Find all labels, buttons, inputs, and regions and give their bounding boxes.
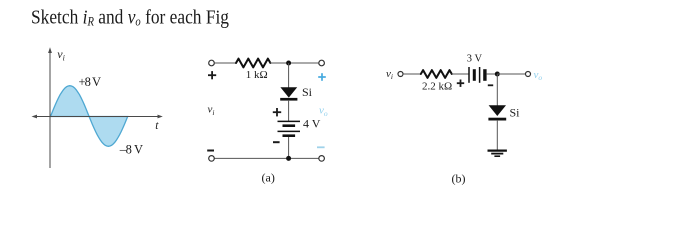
junction node top (a) bbox=[286, 61, 291, 66]
wire resistor to battery (b) bbox=[452, 73, 469, 75]
wire diode to battery (a) bbox=[288, 100, 290, 121]
minus sign bottom-right blue (a) bbox=[317, 146, 325, 148]
battery 4V (a) bbox=[278, 121, 301, 137]
wire battery to junction (b) bbox=[487, 73, 498, 75]
diode D Si (b) bbox=[488, 105, 506, 120]
junction node bottom (a) bbox=[286, 156, 291, 161]
plus sign top-left (a) bbox=[208, 71, 216, 79]
waveform vertical axis bbox=[48, 47, 52, 168]
battery 3V (b) bbox=[469, 67, 487, 83]
resistor R 1kohm (a) bbox=[236, 59, 270, 68]
plus sign top-right blue (a) bbox=[318, 73, 326, 81]
svg-text:(a): (a) bbox=[262, 171, 275, 185]
wire junction to diode (a) bbox=[288, 63, 290, 88]
battery minus label (b) bbox=[488, 84, 493, 86]
battery plus label (b) bbox=[457, 80, 464, 87]
wire junction to output terminal (b) bbox=[497, 73, 525, 75]
minus sign bottom-left (a) bbox=[207, 150, 214, 152]
svg-text:3 V: 3 V bbox=[467, 54, 483, 65]
terminal bottom-left (a) bbox=[209, 156, 215, 162]
wire diode to ground (b) bbox=[496, 120, 498, 150]
terminal bottom-right (a) bbox=[319, 156, 325, 162]
battery plus label (a) bbox=[273, 108, 281, 116]
svg-text:+8 V: +8 V bbox=[79, 75, 102, 89]
svg-text:Sketch iR and vo for each Fig: Sketch iR and vo for each Fig bbox=[31, 7, 229, 29]
terminal top-left (a) bbox=[209, 60, 215, 66]
wire input to resistor (b) bbox=[403, 73, 421, 75]
svg-text:4 V: 4 V bbox=[303, 117, 321, 131]
svg-text:Si: Si bbox=[302, 85, 313, 99]
svg-text:(b): (b) bbox=[452, 172, 466, 186]
svg-text:–8 V: –8 V bbox=[119, 143, 143, 157]
junction node (b) bbox=[495, 72, 500, 77]
terminal input (b) bbox=[398, 72, 403, 77]
waveform sine fill bbox=[51, 86, 128, 147]
ground symbol (b) bbox=[488, 151, 507, 157]
waveform horizontal axis bbox=[32, 115, 163, 119]
wire top-left to resistor bbox=[215, 62, 238, 64]
terminal output (b) bbox=[526, 72, 531, 77]
svg-text:2.2 kΩ: 2.2 kΩ bbox=[422, 80, 452, 92]
bottom wire (a) bbox=[214, 157, 318, 159]
wire resistor to top-right terminal bbox=[270, 62, 319, 64]
svg-text:1 kΩ: 1 kΩ bbox=[246, 69, 268, 81]
diode D Si (a) bbox=[280, 87, 297, 100]
wire junction to diode (b) bbox=[496, 74, 498, 106]
terminal top-right (a) bbox=[319, 60, 325, 66]
wire battery to bottom junction (a) bbox=[288, 137, 290, 158]
resistor 2.2kohm (b) bbox=[421, 70, 452, 78]
svg-text:Si: Si bbox=[510, 105, 521, 119]
battery minus label (a) bbox=[273, 141, 280, 143]
